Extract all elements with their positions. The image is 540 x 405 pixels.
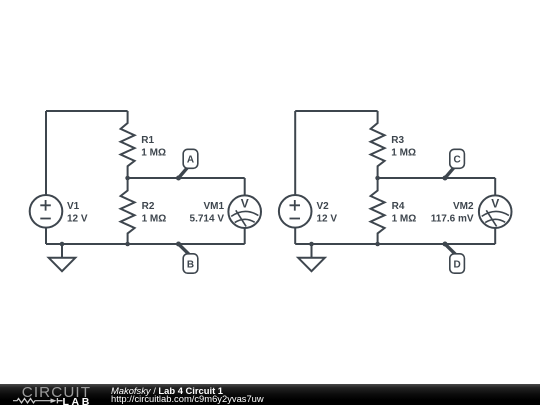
- svg-text:12 V: 12 V: [67, 214, 88, 225]
- voltmeter VM2: [479, 195, 512, 228]
- wire top rail left circuit: [46, 110, 128, 112]
- resistor R2: [121, 178, 135, 244]
- wire top rail right circuit: [295, 110, 377, 112]
- wire mid rail right circuit: [378, 177, 496, 179]
- svg-text:VM1: VM1: [203, 201, 224, 212]
- voltage source V2: [279, 195, 312, 228]
- svg-text:117.6 mV: 117.6 mV: [431, 214, 474, 225]
- svg-text:B: B: [187, 260, 194, 271]
- wire mid rail left circuit: [128, 177, 245, 179]
- footer text: [111, 385, 223, 396]
- svg-text:R3: R3: [391, 135, 404, 146]
- wire VM2 top: [494, 178, 496, 195]
- wire VM1 top: [244, 178, 246, 195]
- junction R4 bottom: [375, 242, 380, 247]
- svg-text:VM2: VM2: [453, 201, 474, 212]
- svg-text:5.714 V: 5.714 V: [190, 214, 225, 225]
- wire bottom rail right circuit: [295, 243, 495, 245]
- wire left rail V1: [45, 111, 47, 195]
- ground left: [60, 242, 65, 247]
- wire VM2 bottom: [494, 228, 496, 244]
- wire V1 bottom: [45, 228, 47, 244]
- resistor R1: [121, 111, 135, 178]
- logo resistor-diode glyph: [13, 397, 64, 405]
- node B: [176, 242, 181, 247]
- node D: [443, 242, 448, 247]
- svg-text:D: D: [453, 260, 460, 271]
- svg-text:V2: V2: [317, 201, 330, 212]
- svg-text:V: V: [241, 197, 249, 211]
- footer bar: [0, 384, 540, 405]
- resistor R4: [371, 178, 385, 244]
- wire left rail V2: [294, 111, 296, 195]
- svg-text:1 MΩ: 1 MΩ: [392, 213, 417, 224]
- svg-text:R4: R4: [392, 201, 405, 212]
- svg-text:A: A: [187, 155, 194, 166]
- svg-text:1 MΩ: 1 MΩ: [142, 213, 167, 224]
- ground right: [309, 242, 314, 247]
- svg-text:1 MΩ: 1 MΩ: [391, 148, 416, 159]
- svg-text:R1: R1: [141, 135, 154, 146]
- node C: [443, 176, 448, 181]
- resistor R3: [371, 111, 385, 178]
- svg-text:C: C: [453, 155, 460, 166]
- wire VM1 bottom: [244, 228, 246, 244]
- CircuitLab logo wordmark: [22, 384, 91, 401]
- svg-text:1 MΩ: 1 MΩ: [141, 148, 166, 159]
- svg-text:12 V: 12 V: [317, 214, 338, 225]
- node junction R3-R4: [375, 176, 380, 181]
- svg-text:V: V: [491, 197, 499, 211]
- node A: [176, 176, 181, 181]
- svg-text:V1: V1: [67, 201, 80, 212]
- wire V2 bottom: [294, 228, 296, 244]
- junction R2 bottom: [125, 242, 130, 247]
- node junction R1-R2: [125, 176, 130, 181]
- wire bottom rail left circuit: [46, 243, 245, 245]
- voltage source V1: [30, 195, 63, 228]
- voltmeter VM1: [228, 195, 261, 228]
- svg-text:R2: R2: [142, 201, 155, 212]
